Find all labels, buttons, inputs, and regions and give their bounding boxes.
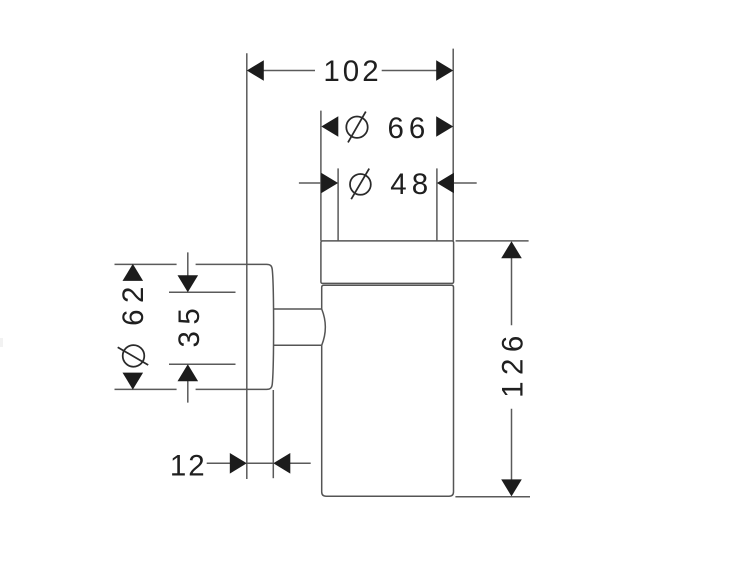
dim 12 line between arrows: [247, 462, 273, 464]
dim 12 extension line: [272, 390, 274, 478]
dim dia62 top line: [115, 263, 247, 265]
svg-text:35: 35: [173, 302, 206, 348]
dim dia48 leader lines: [299, 182, 477, 184]
dim 102 leader lines: [263, 70, 436, 72]
extension line right of dia48: [436, 168, 438, 241]
diameter symbol for 66: [346, 117, 367, 138]
dim dia62 bottom arrow: [123, 373, 144, 390]
dim 35 top line: [169, 291, 236, 293]
extension line left of dia48: [337, 168, 339, 241]
svg-text:126: 126: [497, 329, 530, 398]
dim 126 top extension line: [456, 240, 529, 242]
dim dia48 right arrow: [437, 173, 454, 194]
dim dia66 left arrow: [321, 116, 338, 137]
diameter symbol for 62 rotated: [123, 345, 145, 367]
svg-text:102: 102: [323, 55, 381, 88]
dim 12 leader lines: [207, 462, 311, 464]
mounting arm: [273, 309, 321, 345]
tumbler body: [322, 285, 454, 496]
dim 126 line: [511, 257, 513, 482]
dim 35 bottom arrow: [178, 364, 199, 381]
dim dia66 right arrow: [436, 116, 453, 137]
dim 102 right arrow: [436, 60, 453, 81]
wall line: [246, 53, 248, 479]
svg-text:62: 62: [117, 280, 150, 326]
dim 12 right arrow: [273, 453, 290, 474]
holder ring band: [321, 241, 454, 284]
mounting arm end cap: [322, 309, 326, 345]
dim dia48 left arrow: [321, 173, 338, 194]
faint left-edge artifact: [0, 338, 3, 347]
extension line left of dia66: [320, 111, 322, 241]
wall plate: [247, 264, 274, 389]
diameter symbol for 48: [350, 174, 371, 195]
svg-text:12: 12: [170, 450, 207, 483]
svg-text:48: 48: [390, 168, 433, 201]
dim dia62 top arrow: [123, 264, 144, 281]
dim dia62 bottom line: [115, 388, 247, 390]
dim 102 left arrow: [247, 60, 264, 81]
svg-text:66: 66: [387, 112, 430, 145]
dim 35 bottom line: [169, 363, 236, 365]
dim 126 bottom arrow: [501, 479, 522, 496]
dim 126 top arrow: [501, 241, 522, 258]
dim 35 leader lines: [187, 252, 189, 402]
extension line right of 102: [452, 49, 454, 241]
dim 126 bottom extension line: [455, 496, 530, 498]
dim 12 left arrow: [230, 453, 247, 474]
dim 35 top arrow: [178, 275, 199, 292]
